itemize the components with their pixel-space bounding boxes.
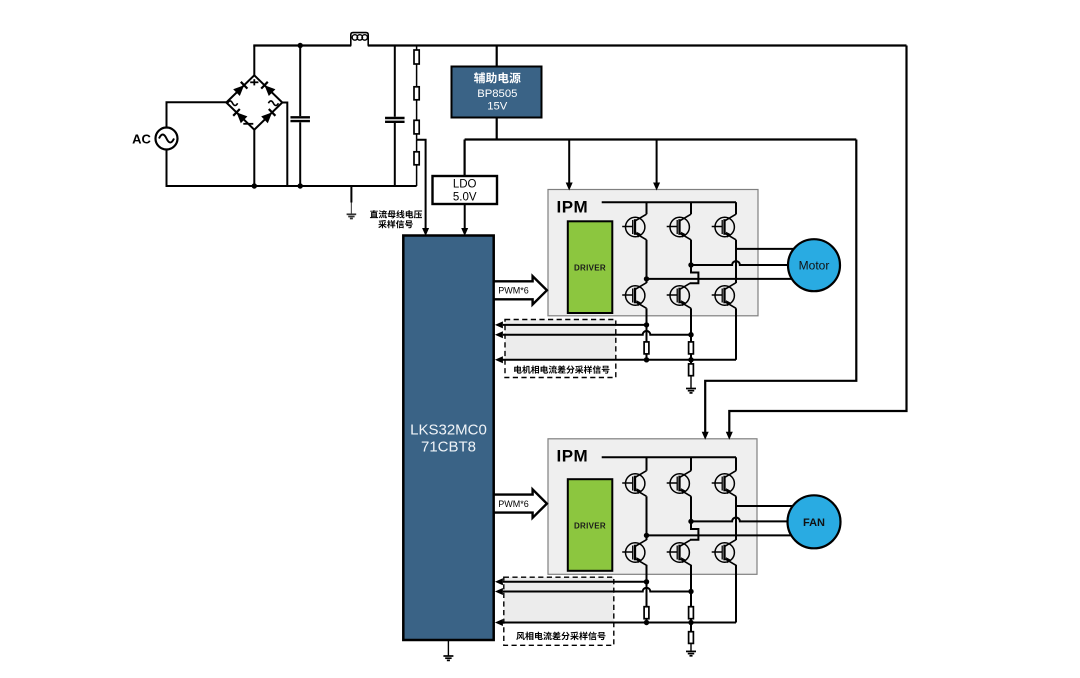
svg-text:BP8505: BP8505 bbox=[477, 88, 517, 100]
svg-text:PWM*6: PWM*6 bbox=[498, 499, 529, 509]
svg-text:DRIVER: DRIVER bbox=[574, 522, 606, 531]
svg-text:LKS32MC0: LKS32MC0 bbox=[410, 422, 487, 439]
svg-text:71CBT8: 71CBT8 bbox=[421, 439, 476, 456]
svg-text:Motor: Motor bbox=[799, 259, 830, 273]
svg-text:DRIVER: DRIVER bbox=[574, 264, 606, 273]
svg-text:FAN: FAN bbox=[803, 517, 825, 529]
svg-text:IPM: IPM bbox=[557, 197, 589, 216]
svg-text:AC: AC bbox=[132, 131, 151, 146]
svg-text:15V: 15V bbox=[487, 101, 508, 113]
svg-text:5.0V: 5.0V bbox=[453, 192, 477, 204]
svg-text:PWM*6: PWM*6 bbox=[498, 286, 529, 296]
svg-text:LDO: LDO bbox=[453, 179, 477, 191]
svg-text:IPM: IPM bbox=[557, 447, 589, 466]
